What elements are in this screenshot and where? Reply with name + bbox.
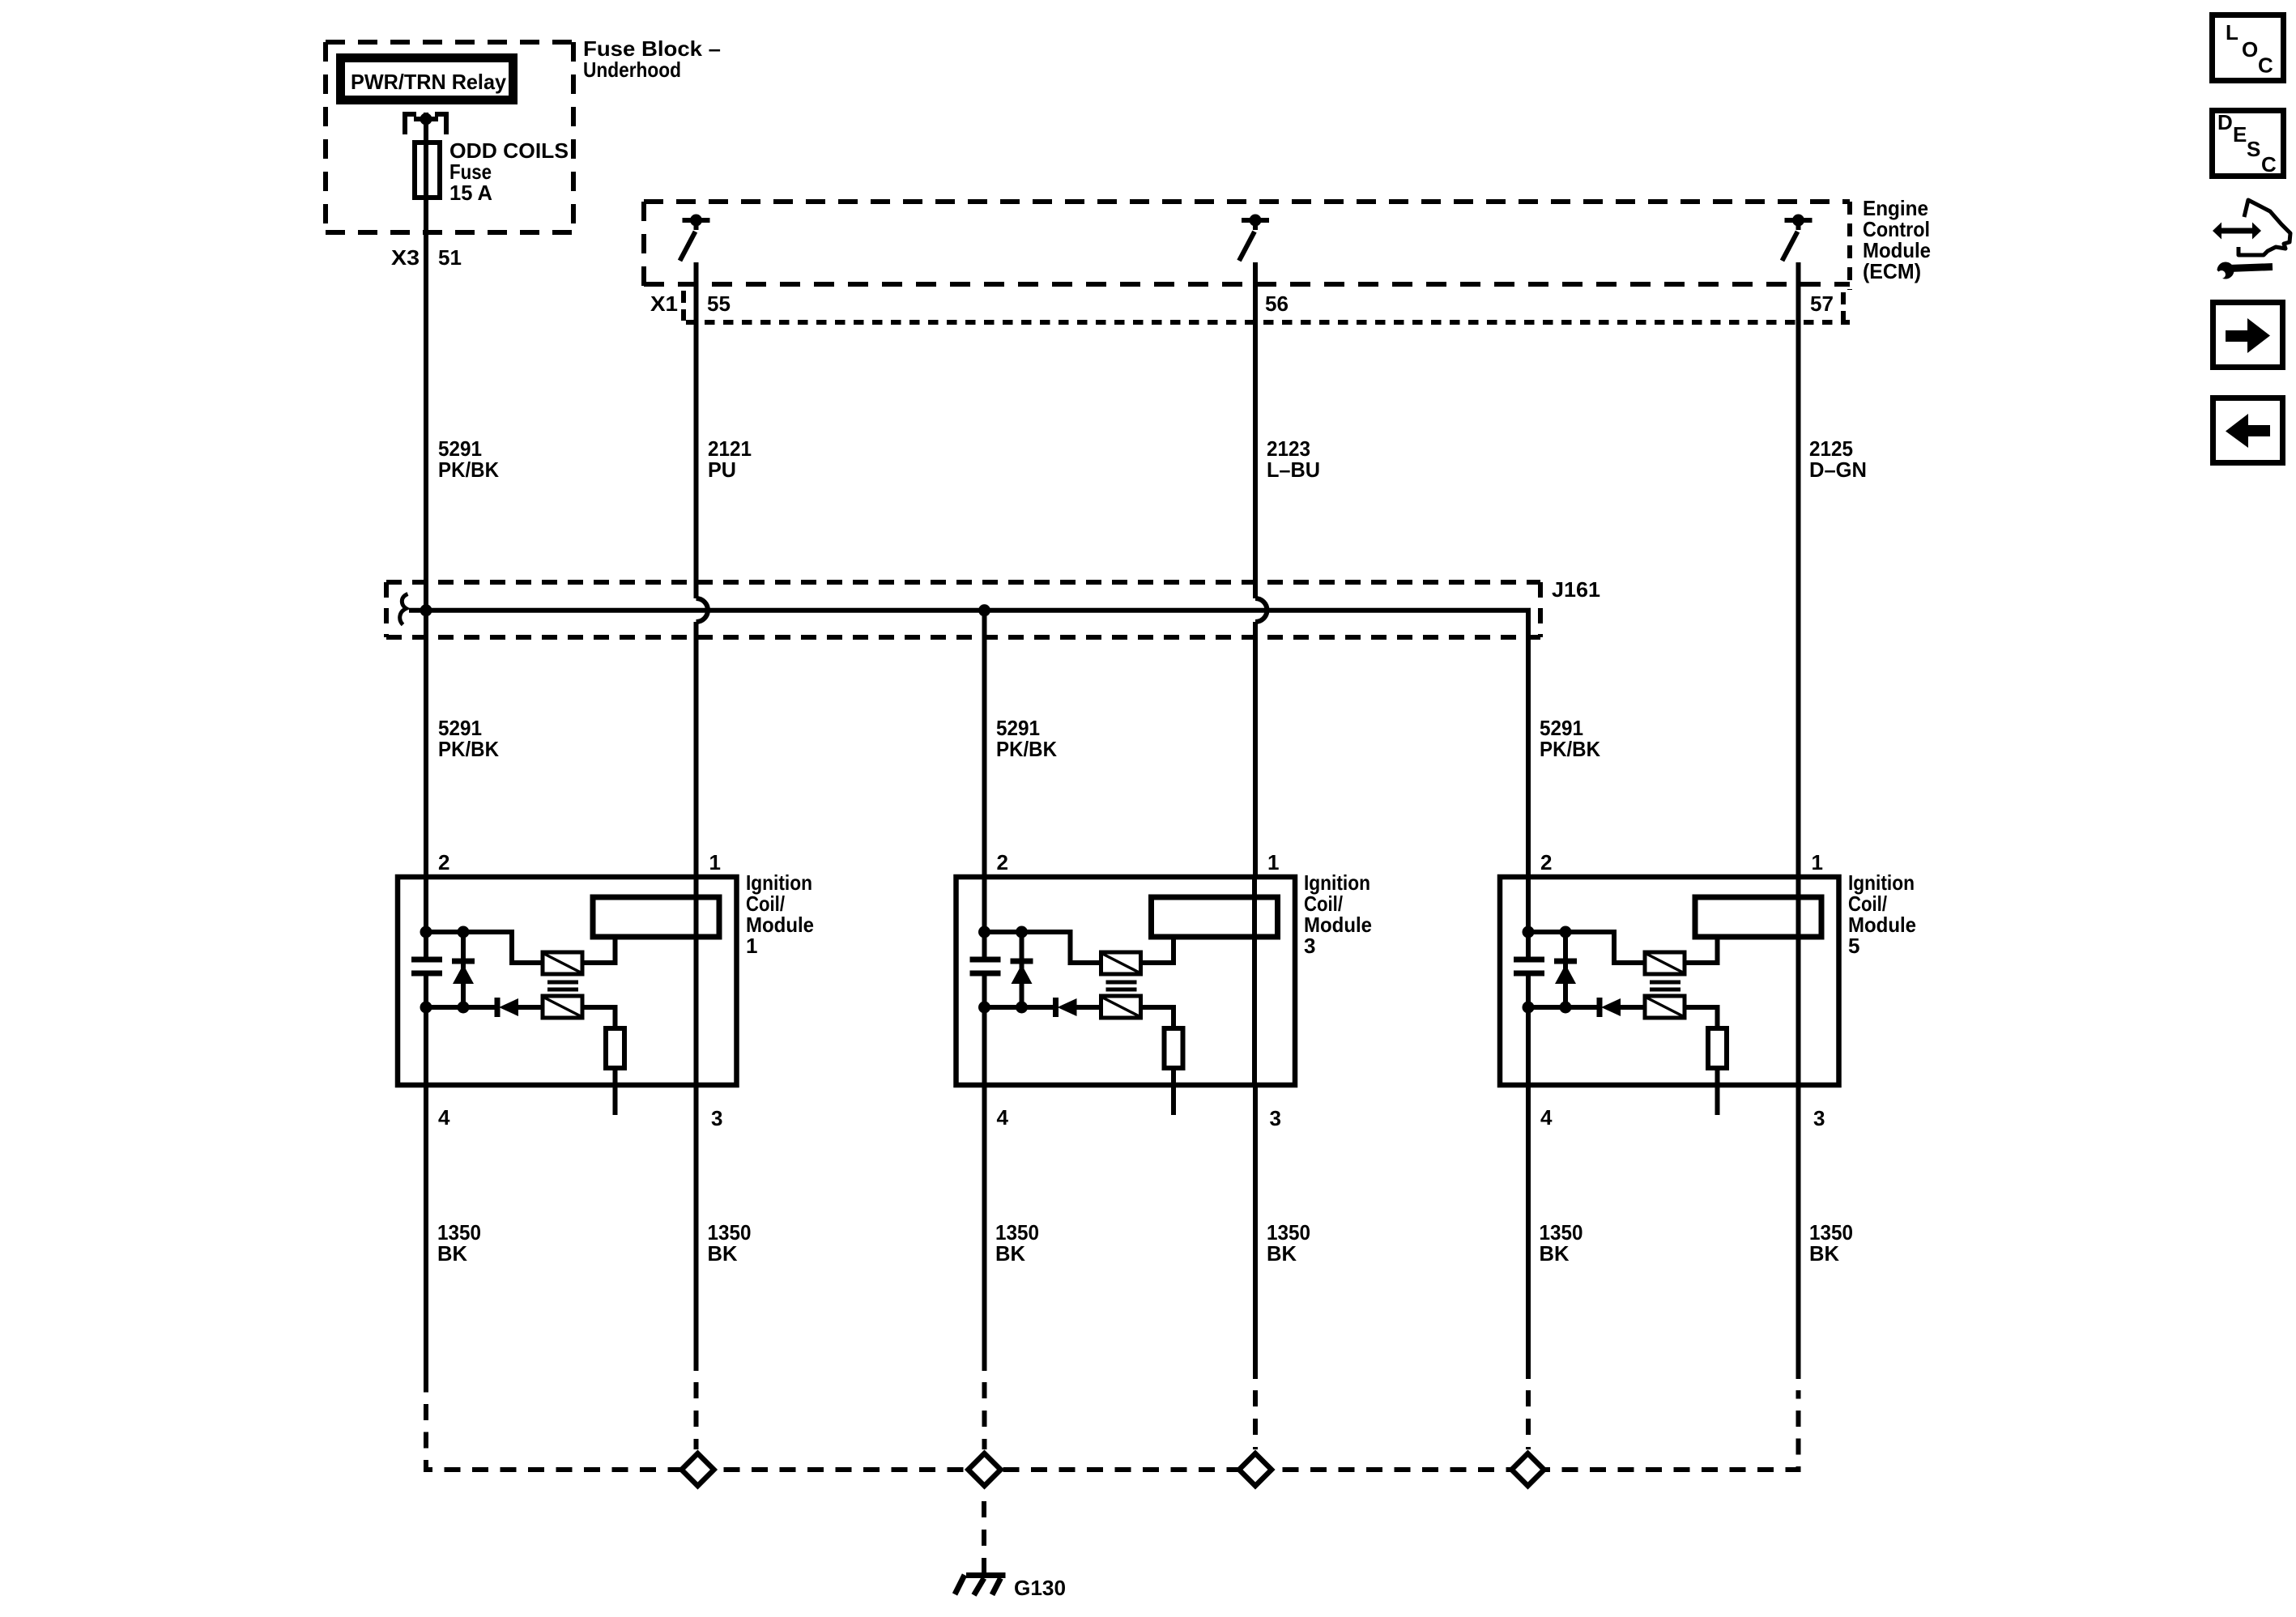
junction dot splice W1 (420, 604, 432, 616)
ECM dashed box right edge (1847, 202, 1852, 290)
wire 2121 PU upper segment (694, 262, 699, 598)
dashed wire coil5 pin4 to splice diamond (1526, 1390, 1531, 1449)
ignition coil/module 3 label (1304, 870, 1372, 958)
ignition coil/module 5 (1500, 850, 1839, 1130)
svg-text:56: 56 (1265, 291, 1289, 316)
wire relay to fuse (424, 113, 428, 143)
wire coil1 pin4 ground lead solid (424, 1085, 428, 1393)
wire coil5 pin3 ground lead solid (1796, 1085, 1801, 1379)
fuse block underhood dashed box (326, 40, 573, 45)
fuse F ODD COILS 15A (415, 143, 440, 198)
svg-text:BK: BK (1540, 1241, 1570, 1266)
svg-text:Underhood: Underhood (583, 57, 681, 82)
svg-text:BK: BK (708, 1241, 738, 1266)
back arrow icon box (2213, 398, 2283, 463)
ECM X1 connector dotted line (686, 320, 1850, 325)
svg-text:D: D (2217, 110, 2233, 134)
ECM driver 3 (pin 57) (1783, 215, 1813, 262)
fuse block label (583, 36, 721, 82)
wire splice to coil 1 pin 2 (424, 611, 428, 877)
ground symbol G130 (955, 1575, 1006, 1595)
wire label 5291 PK/BK branch 3 (1540, 716, 1600, 761)
svg-text:PK/BK: PK/BK (1540, 737, 1600, 761)
svg-text:PK/BK: PK/BK (438, 737, 499, 761)
svg-text:L: L (2226, 20, 2238, 45)
wire label 1350 BK (coil5 pin4) (1540, 1220, 1583, 1266)
ground splice diamond 1 (682, 1453, 714, 1486)
splice clip symbol (400, 594, 408, 625)
ECM dashed box top edge (644, 199, 1850, 204)
dashed wire coil1 pin3 to splice diamond (694, 1382, 699, 1449)
svg-text:C: C (2261, 152, 2277, 177)
svg-text:J161: J161 (1552, 577, 1600, 602)
fuse clip right (435, 114, 446, 134)
connector separator dash left (681, 291, 686, 321)
wire coil1 pin3 ground lead solid (694, 1085, 699, 1371)
splice pack J161 dashed box (386, 580, 1540, 585)
connector view icon outline (2238, 200, 2290, 255)
svg-text:PWR/TRN Relay: PWR/TRN Relay (351, 70, 507, 94)
ground splice diamond 4 (1512, 1453, 1544, 1486)
ECM dashed box bottom edge (644, 282, 1850, 287)
wire 2123 L-BU lower segment to coil 3 pin 1 (1253, 622, 1258, 877)
wire 2123 L-BU upper segment (1253, 262, 1258, 598)
ECM driver 2 (pin 56) (1239, 215, 1269, 262)
junction dot relay output (420, 113, 432, 126)
ground splice diamond 2 (969, 1453, 1001, 1486)
ignition coil/module 5 label (1848, 870, 1916, 958)
wire label 1350 BK (coil3 pin4) (995, 1220, 1039, 1266)
wire 2121 PU hop over splice bus (696, 598, 708, 622)
dashed wire diamond 2 to ground G130 (982, 1492, 986, 1574)
dashed ground bus (426, 1390, 1799, 1470)
ignition coil/module 1 (398, 850, 737, 1130)
svg-text:L–BU: L–BU (1267, 457, 1320, 482)
wire label 1350 BK (coil5 pin3) (1809, 1220, 1853, 1266)
ignition coil/module 1 label (746, 870, 814, 958)
fuse top terminal bar (414, 117, 438, 121)
svg-text:BK: BK (1809, 1241, 1839, 1266)
svg-text:S: S (2247, 137, 2260, 161)
wire label 2121 PU (708, 436, 752, 482)
ECM label (1863, 196, 1931, 283)
connector view icon wrench (2209, 262, 2273, 279)
wire label 1350 BK (coil1 pin3) (708, 1220, 752, 1266)
svg-text:PU: PU (708, 457, 736, 482)
wire coil3 pin3 ground lead solid (1253, 1085, 1258, 1379)
fuse clip left (405, 114, 416, 134)
wire label 1350 BK (coil3 pin3) (1267, 1220, 1310, 1266)
connector separator dash right (1841, 292, 1846, 322)
splice bus wire J161 (409, 611, 1528, 877)
relay K PWR/TRN (341, 58, 513, 100)
svg-text:C: C (2258, 53, 2273, 78)
svg-text:PK/BK: PK/BK (996, 737, 1057, 761)
DESC icon box (2213, 110, 2284, 177)
svg-text:57: 57 (1810, 291, 1834, 316)
svg-text:E: E (2233, 122, 2247, 147)
svg-text:5: 5 (1848, 934, 1859, 958)
svg-text:51: 51 (438, 245, 462, 270)
wire label 5291 PK/BK branch 1 (438, 716, 499, 761)
svg-text:BK: BK (437, 1241, 467, 1266)
fuse label (449, 138, 569, 205)
ground splice diamond 3 (1239, 1453, 1272, 1486)
svg-text:X3: X3 (391, 245, 420, 270)
LOC icon box (2213, 15, 2284, 81)
svg-text:3: 3 (1304, 934, 1315, 958)
wire label 1350 BK (coil1 pin4) (437, 1220, 481, 1266)
wire label 5291 PK/BK branch 2 (996, 716, 1057, 761)
svg-text:PK/BK: PK/BK (438, 457, 499, 482)
svg-text:X1: X1 (650, 291, 678, 316)
ECM driver 1 (pin 55) (680, 215, 710, 262)
wire label 2125 D-GN (1809, 436, 1867, 482)
svg-text:D–GN: D–GN (1809, 457, 1867, 482)
dashed wire coil3 pin3 to splice diamond (1253, 1390, 1258, 1449)
svg-text:BK: BK (1267, 1241, 1297, 1266)
svg-text:1: 1 (746, 934, 757, 958)
forward arrow icon box (2213, 303, 2283, 368)
wire fuse to splice J161 (5291 PK/BK) (424, 143, 428, 877)
ECM dashed box left edge (641, 202, 646, 287)
wire label 2123 L-BU (1267, 436, 1320, 482)
wire 2125 D-GN to coil 5 pin 1 (1796, 262, 1801, 877)
dashed wire coil3 pin4 to splice diamond (982, 1382, 987, 1449)
svg-text:G130: G130 (1014, 1576, 1066, 1600)
wire coil3 pin4 ground lead solid (982, 1085, 987, 1371)
junction dot splice W3 (978, 604, 990, 616)
svg-text:15 A: 15 A (449, 181, 492, 205)
ignition coil/module 3 (956, 850, 1296, 1130)
wire splice to coil 3 pin 2 (982, 611, 987, 877)
wire coil5 pin4 ground lead solid (1526, 1085, 1531, 1379)
svg-text:(ECM): (ECM) (1863, 259, 1921, 283)
svg-text:O: O (2242, 37, 2258, 62)
wire label 5291 PK/BK (feed) (438, 436, 499, 482)
svg-text:BK: BK (995, 1241, 1025, 1266)
wire 2123 L-BU hop over splice bus (1255, 598, 1267, 622)
svg-text:55: 55 (707, 291, 731, 316)
wire 2121 PU lower segment to coil 1 pin 1 (694, 622, 699, 877)
connector view icon double arrow (2213, 223, 2261, 240)
